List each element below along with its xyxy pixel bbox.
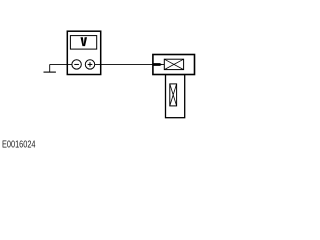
ground — [44, 71, 56, 73]
terminal plus — [85, 60, 94, 69]
voltmeter outer case — [67, 31, 100, 74]
arrow (probe into connector) — [153, 63, 162, 66]
wire: vertical drop to ground — [49, 64, 51, 72]
wire: arrow tip to terminal — [162, 64, 165, 66]
solenoid winding (lower crossed box) — [170, 84, 177, 106]
wire: voltmeter plus terminal to solenoid — [95, 63, 154, 65]
terminal (upper crossed box) — [164, 59, 183, 69]
terminal minus — [72, 60, 81, 69]
solenoid body (lower) — [166, 75, 185, 118]
voltmeter display window — [70, 36, 96, 50]
label V — [81, 37, 88, 46]
svg-text:E0016024: E0016024 — [2, 139, 36, 150]
wire: ground lead from voltmeter minus terminal — [50, 63, 72, 65]
connector housing (top box) — [153, 55, 195, 75]
